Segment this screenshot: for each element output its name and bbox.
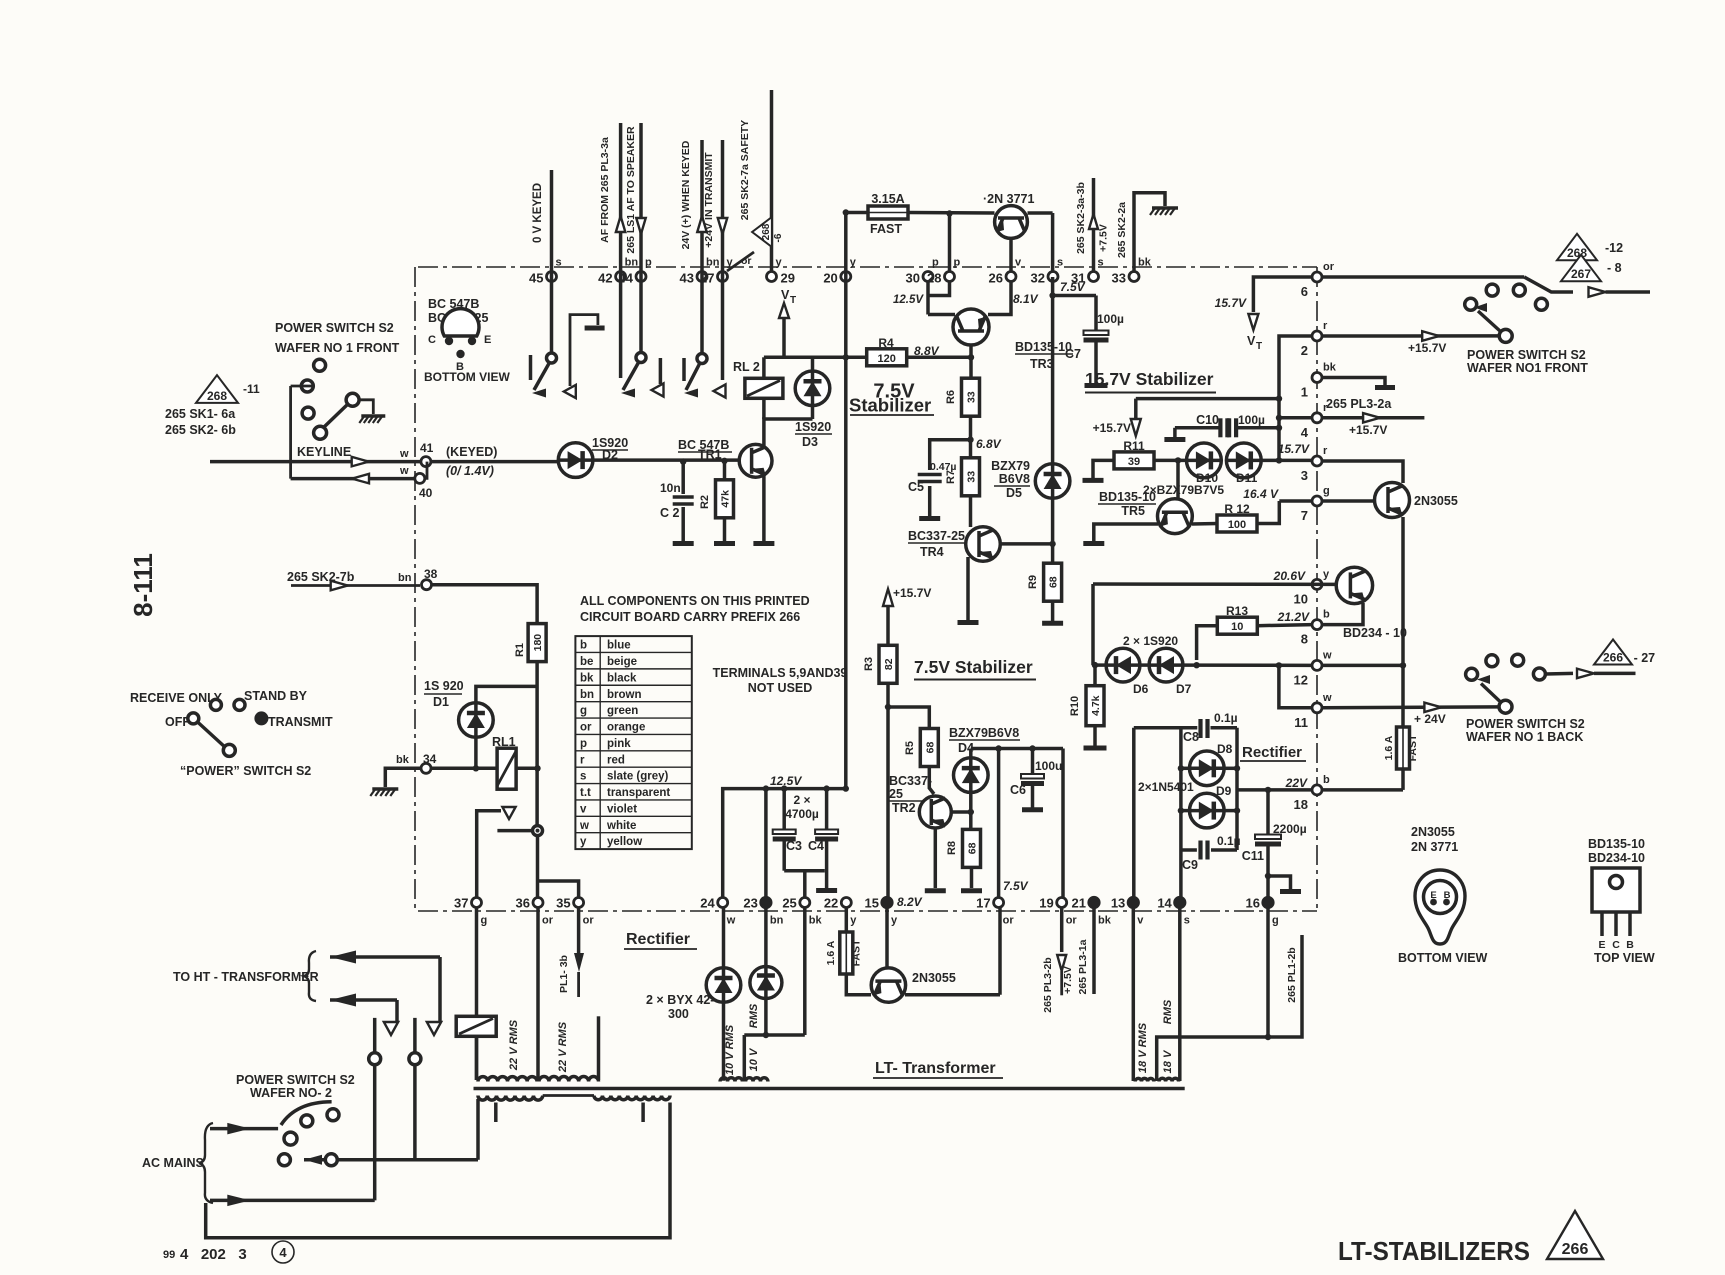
resistor R3 82 xyxy=(863,645,897,683)
svg-text:33: 33 xyxy=(1112,271,1126,286)
node PCB board outline dash-dot border xyxy=(415,267,1317,911)
svg-text:D7: D7 xyxy=(1176,682,1192,696)
svg-text:g: g xyxy=(1323,485,1330,497)
svg-text:D8: D8 xyxy=(1217,742,1233,756)
svg-text:BZX79B6V8: BZX79B6V8 xyxy=(949,726,1019,740)
svg-text:- 8: - 8 xyxy=(1607,261,1622,275)
svg-text:s: s xyxy=(556,257,562,269)
svg-text:r: r xyxy=(580,754,585,766)
svg-text:s: s xyxy=(580,771,586,783)
svg-text:BD234 - 10: BD234 - 10 xyxy=(1343,626,1407,640)
winding secondary 22V no1 xyxy=(477,1019,538,1081)
svg-text:w: w xyxy=(579,820,589,832)
svg-text:1S 920: 1S 920 xyxy=(424,679,464,693)
svg-text:15.7V Stabilizer: 15.7V Stabilizer xyxy=(1085,369,1214,389)
svg-text:17: 17 xyxy=(976,896,990,911)
svg-text:32: 32 xyxy=(1031,271,1045,286)
wire +24V IN TRANSMIT to terminal 27 xyxy=(703,140,727,380)
svg-text:265 SK2-7a SAFETY: 265 SK2-7a SAFETY xyxy=(739,120,751,220)
wire bridge right rail to terminal 18 (22V) xyxy=(1237,728,1312,850)
svg-text:2 × BYX 42-: 2 × BYX 42- xyxy=(646,993,714,1007)
node BC547B BC337-25 BOTTOM VIEW symbol xyxy=(424,297,510,384)
wire terminal 2 row to switch wiper (+15.7V) xyxy=(1322,331,1499,355)
svg-text:47k: 47k xyxy=(720,490,732,508)
node transformer core xyxy=(474,1087,1185,1091)
wire 2N3771 emitter to terminal 26 xyxy=(1009,239,1013,273)
svg-text:bk: bk xyxy=(809,915,823,927)
resistor R2 47k xyxy=(699,458,735,544)
switch S2 wafer1 front contacts (right) xyxy=(1465,284,1548,342)
node terminal 37 (g) xyxy=(454,896,487,927)
svg-text:v: v xyxy=(1137,915,1144,927)
svg-text:2N3055: 2N3055 xyxy=(1414,494,1458,508)
wire HT transformer line 1 xyxy=(330,951,441,1036)
svg-text:7.5V: 7.5V xyxy=(1060,280,1086,294)
svg-text:g: g xyxy=(580,705,587,717)
svg-text:green: green xyxy=(607,705,638,717)
node label POWER SWITCH S2 WAFER NO-2 xyxy=(236,1073,355,1100)
wire terminal 21 stub 265 PL3-1a xyxy=(1077,907,1094,994)
svg-text:29: 29 xyxy=(781,271,795,286)
svg-text:265 SK2-7b: 265 SK2-7b xyxy=(287,570,355,584)
wire terminal 22 down to fuse xyxy=(845,907,849,932)
svg-text:p: p xyxy=(645,257,652,269)
node 15.7V Stabilizer title xyxy=(1085,369,1216,393)
svg-text:BOTTOM VIEW: BOTTOM VIEW xyxy=(1398,951,1488,965)
svg-text:180: 180 xyxy=(532,634,544,652)
diode D5 BZX79B6V8 xyxy=(1035,277,1070,562)
svg-text:R1: R1 xyxy=(514,643,526,657)
svg-text:BD135-10: BD135-10 xyxy=(1015,340,1072,354)
wire terminal 24 down to BYX diode 1 xyxy=(722,907,726,968)
svg-text:FAST: FAST xyxy=(1407,734,1419,761)
svg-text:RL 2: RL 2 xyxy=(733,360,760,374)
diode D11 BZX79B7V5 xyxy=(1226,443,1312,478)
node label 2x 4700u C3 C4 xyxy=(785,793,824,853)
svg-text:STAND BY: STAND BY xyxy=(244,689,308,703)
node label 10V RMS windings xyxy=(724,1003,760,1075)
resistor R12 100 xyxy=(1192,501,1279,532)
svg-text:black: black xyxy=(607,672,637,684)
svg-text:E: E xyxy=(484,334,491,346)
svg-text:36: 36 xyxy=(516,896,530,911)
svg-text:1.6 A: 1.6 A xyxy=(825,940,837,965)
node terminal 29 (y) xyxy=(767,257,795,286)
svg-text:PL1- 3b: PL1- 3b xyxy=(558,955,570,993)
svg-text:R11: R11 xyxy=(1123,439,1145,453)
svg-text:8: 8 xyxy=(1301,632,1308,647)
svg-text:+7.5V: +7.5V xyxy=(1062,966,1074,994)
svg-text:r: r xyxy=(1323,320,1328,332)
svg-text:LT-STABILIZERS: LT-STABILIZERS xyxy=(1338,1236,1530,1266)
svg-text:POWER SWITCH S2: POWER SWITCH S2 xyxy=(275,321,394,335)
wire terminal 12 row to 2N3055 emitter line (w) xyxy=(1322,664,1403,668)
svg-text:BZX79: BZX79 xyxy=(991,459,1030,473)
svg-text:(KEYED): (KEYED) xyxy=(446,445,497,459)
svg-text:bn: bn xyxy=(770,915,784,927)
node label TO HT-TRANSFORMER xyxy=(173,951,319,1001)
node label 265 SK1-6a / 265 SK2-6b xyxy=(165,407,236,437)
svg-text:(0/ 1.4V): (0/ 1.4V) xyxy=(446,464,494,478)
svg-text:D11: D11 xyxy=(1236,471,1258,485)
node triangle 268-6 on safety wire xyxy=(752,217,772,247)
node terminal 35 (or) xyxy=(556,896,594,927)
node terminal 12 (w) xyxy=(1294,649,1332,687)
svg-text:2200µ: 2200µ xyxy=(1273,822,1307,836)
wire terminal 3 row to 2N3055 collector xyxy=(1322,461,1403,483)
wire terminal 6 VT arrow xyxy=(1215,277,1312,352)
winding secondary 18V no1 xyxy=(1135,1078,1154,1081)
fuse 3.15A FAST xyxy=(868,192,908,236)
resistor R13 10 xyxy=(1197,604,1312,660)
node terminal 38 xyxy=(422,567,438,590)
svg-text:y: y xyxy=(1323,568,1330,580)
winding secondary 10V no1 xyxy=(720,1078,742,1082)
winding primary group 1 xyxy=(478,1096,543,1101)
wire 265 SK2-2a terminal 33 to ground xyxy=(1116,193,1178,272)
svg-text:8.2V: 8.2V xyxy=(897,895,923,909)
svg-text:8-111: 8-111 xyxy=(128,553,158,617)
svg-text:2 ×: 2 × xyxy=(793,793,810,807)
wire terminal 1 bk stub to 0V xyxy=(1322,378,1395,388)
svg-text:C10: C10 xyxy=(1196,413,1219,427)
svg-text:-6: -6 xyxy=(773,233,784,242)
svg-text:13: 13 xyxy=(1111,896,1125,911)
svg-text:4.7k: 4.7k xyxy=(1090,695,1102,716)
wire primary right end loop xyxy=(206,1103,670,1238)
svg-text:8.1V: 8.1V xyxy=(1013,292,1039,306)
svg-text:33: 33 xyxy=(966,391,978,403)
svg-text:b: b xyxy=(580,640,587,652)
svg-text:RECEIVE ONLY: RECEIVE ONLY xyxy=(130,691,223,705)
node terminal 31 (s) xyxy=(1071,257,1104,286)
node terminal 14 (s) xyxy=(1157,896,1190,927)
node terminal 15 (y) xyxy=(865,896,898,927)
node label BD135-10 TR5 xyxy=(1098,490,1156,518)
svg-text:s: s xyxy=(1184,915,1190,927)
svg-text:265 SK2-2a: 265 SK2-2a xyxy=(1116,202,1128,258)
svg-text:V: V xyxy=(1247,334,1256,348)
svg-text:WAFER NO1 FRONT: WAFER NO1 FRONT xyxy=(1467,361,1588,375)
transistor 2N3055 (lower) xyxy=(871,968,956,1002)
svg-text:21: 21 xyxy=(1072,896,1086,911)
svg-text:b: b xyxy=(1323,774,1330,786)
svg-text:+15.7V: +15.7V xyxy=(893,586,931,600)
svg-text:Rectifier: Rectifier xyxy=(1242,744,1302,761)
diode D3 1S920 xyxy=(795,357,832,449)
svg-text:0.1µ: 0.1µ xyxy=(1217,834,1241,848)
wire mains riser 1 xyxy=(369,1018,381,1201)
svg-text:+7.5V: +7.5V xyxy=(1098,224,1110,252)
node terminal 4 (r) xyxy=(1301,402,1328,440)
svg-text:g: g xyxy=(481,915,488,927)
node VT arrow at RL2 xyxy=(779,288,796,357)
svg-text:TR2: TR2 xyxy=(892,801,916,815)
wire TR3 base down to R6 xyxy=(968,345,974,379)
wire terminal 38 to R1 xyxy=(431,585,537,624)
svg-text:16.4 V: 16.4 V xyxy=(1243,487,1279,501)
svg-text:white: white xyxy=(606,820,636,832)
svg-text:NOT USED: NOT USED xyxy=(748,681,813,695)
wire TR5 emitter to 0V xyxy=(1083,524,1158,544)
svg-text:+ 24V: + 24V xyxy=(1414,712,1446,726)
svg-text:w: w xyxy=(726,915,736,927)
svg-text:FAST: FAST xyxy=(851,939,863,966)
svg-text:+15.7V: +15.7V xyxy=(1349,423,1387,437)
svg-text:C: C xyxy=(428,334,436,346)
switch S2 wafer no-2 xyxy=(281,1102,339,1145)
node Rectifier title (left) xyxy=(624,931,697,949)
svg-text:bn: bn xyxy=(625,257,639,269)
resistor R4 120 xyxy=(846,336,940,366)
svg-text:TR4: TR4 xyxy=(920,545,944,559)
capacitor C11 2200u xyxy=(1242,790,1307,876)
svg-text:26: 26 xyxy=(989,271,1003,286)
svg-text:10: 10 xyxy=(1294,591,1308,606)
wire switch to triangle 266-27 xyxy=(1545,669,1635,679)
wire 10-row vertical to D6 row xyxy=(1091,584,1095,665)
svg-text:y: y xyxy=(580,836,587,848)
node terminal 36 (or) xyxy=(516,896,554,927)
svg-text:R9: R9 xyxy=(1027,575,1039,589)
wire terminal 10 row (20.6V) xyxy=(1093,569,1337,584)
wire centre tap from terminal 36 xyxy=(536,907,540,1081)
node terminal 44 (p) xyxy=(619,257,652,286)
wire 24V(+) WHEN KEYED to terminal 43 xyxy=(680,140,707,354)
svg-text:18 V: 18 V xyxy=(1162,1049,1174,1073)
svg-text:Rectifier: Rectifier xyxy=(626,931,690,948)
svg-text:beige: beige xyxy=(607,656,637,668)
svg-text:y: y xyxy=(850,257,857,269)
svg-text:+24V IN TRANSMIT: +24V IN TRANSMIT xyxy=(703,152,715,248)
svg-text:3.15A: 3.15A xyxy=(871,192,904,206)
capacitor C10 100u xyxy=(1164,413,1279,440)
svg-text:TR1: TR1 xyxy=(698,448,722,462)
node terminal 28 (p) xyxy=(927,257,960,286)
svg-text:bn: bn xyxy=(398,572,412,584)
node label POWER SWITCH S2 WAFER NO 1 FRONT (left) xyxy=(275,321,400,355)
svg-text:C5: C5 xyxy=(908,480,924,494)
node terminal 2 (r) xyxy=(1301,320,1328,358)
svg-text:TR5: TR5 xyxy=(1121,504,1145,518)
wire terminal 15 down to 2N3055 base xyxy=(885,907,889,968)
svg-text:14: 14 xyxy=(1157,896,1172,911)
node terminal 20 (y) xyxy=(823,257,856,286)
svg-text:B6V8: B6V8 xyxy=(999,472,1030,486)
svg-text:265 LS1 AF TO SPEAKER: 265 LS1 AF TO SPEAKER xyxy=(625,126,637,254)
node label BC337-25 TR2 xyxy=(889,774,932,815)
node terminal 21 (bk) xyxy=(1072,896,1112,927)
svg-text:0 V KEYED: 0 V KEYED xyxy=(532,183,544,243)
capacitor C6 100u xyxy=(1010,749,1062,810)
svg-text:TOP VIEW: TOP VIEW xyxy=(1594,951,1655,965)
svg-text:R4: R4 xyxy=(878,336,894,350)
svg-text:45: 45 xyxy=(529,271,543,286)
svg-text:99: 99 xyxy=(163,1249,175,1261)
resistor R9 68 xyxy=(1027,563,1063,623)
node 2N3055 2N3771 BOTTOM VIEW symbol xyxy=(1398,825,1488,965)
transistor TR4 BC337-25 xyxy=(966,527,1001,562)
wire AC mains line 1 to wafer2 wiper xyxy=(210,1123,278,1135)
node sheet number 8-111 xyxy=(128,553,158,617)
svg-text:R7: R7 xyxy=(945,470,957,484)
svg-text:2×1N5401: 2×1N5401 xyxy=(1138,780,1194,794)
wire terminal 7 to 2N3055 base xyxy=(1322,499,1375,503)
wire 0V KEYED feed to terminal 45 xyxy=(532,170,552,354)
node terminal 41 xyxy=(420,441,497,478)
diode D6 1S920 xyxy=(1093,648,1149,696)
wire HT transformer line 2 xyxy=(330,994,398,1036)
svg-text:bk: bk xyxy=(1323,362,1337,374)
node label BZX79 B6V8 D5 xyxy=(991,459,1030,500)
wire RL2 top node xyxy=(764,356,868,360)
svg-text:7.5V: 7.5V xyxy=(1003,879,1029,893)
wire +15.7V left rail to arrow xyxy=(1093,399,1279,436)
wire D2 to TR1 base xyxy=(593,458,739,462)
wire R6 to 6.8V node xyxy=(967,416,1001,458)
svg-text:2: 2 xyxy=(1301,343,1308,358)
capacitor C7 100u xyxy=(1065,296,1124,386)
node label POWER SWITCH S2 WAFER NO 1 BACK xyxy=(1466,717,1585,744)
node terminal 22 (y) xyxy=(824,896,857,927)
svg-text:267: 267 xyxy=(1571,267,1591,281)
svg-text:yellow: yellow xyxy=(607,836,642,848)
svg-text:C3: C3 xyxy=(786,839,802,853)
svg-text:82: 82 xyxy=(883,658,895,670)
node terminal 19 (or) xyxy=(1039,896,1077,927)
node terminal 23 (bn) xyxy=(743,896,783,927)
wire 265 LS1 AF TO SPEAKER from terminal 44 xyxy=(625,123,646,353)
svg-text:CIRCUIT BOARD CARRY PREFIX: CIRCUIT BOARD CARRY PREFIX 266 xyxy=(580,610,800,624)
svg-text:V: V xyxy=(781,288,790,302)
node title LT-STABILIZERS xyxy=(1338,1236,1530,1266)
svg-text:4 202 3: 4 202 3 xyxy=(180,1246,247,1263)
svg-text:1: 1 xyxy=(1301,385,1308,400)
svg-text:be: be xyxy=(580,656,593,668)
wire mains riser 2 xyxy=(409,1018,421,1160)
svg-text:or: or xyxy=(1003,915,1015,927)
svg-text:R6: R6 xyxy=(945,390,957,404)
svg-text:or: or xyxy=(1066,915,1078,927)
svg-text:R13: R13 xyxy=(1226,604,1248,618)
svg-text:or: or xyxy=(583,915,595,927)
svg-text:s: s xyxy=(1057,257,1063,269)
svg-text:24V (+) WHEN KEYED: 24V (+) WHEN KEYED xyxy=(680,140,692,249)
svg-text:bk: bk xyxy=(1138,257,1152,269)
node terminal 30 (p) xyxy=(906,257,939,286)
svg-text:y: y xyxy=(850,915,857,927)
svg-text:D6: D6 xyxy=(1133,682,1149,696)
diode D1 1S920 xyxy=(459,686,537,768)
svg-text:100µ: 100µ xyxy=(1238,413,1265,427)
svg-text:+15.7V: +15.7V xyxy=(1093,421,1131,435)
svg-text:265 PL3-1a: 265 PL3-1a xyxy=(1077,939,1089,994)
switch S2 wafer1 contact group B (terminals 42/44) xyxy=(621,353,664,398)
svg-text:D5: D5 xyxy=(1006,486,1022,500)
node triangle 268-12 / 267-8 xyxy=(1557,234,1623,281)
switch S2 wafer1 contact group A (terminal 45) xyxy=(531,353,557,398)
svg-text:·2N 3771: ·2N 3771 xyxy=(983,192,1034,206)
node triangle 268-11 xyxy=(196,375,260,403)
wire keyed line to D2 xyxy=(430,460,558,464)
diode D8 1N5401 xyxy=(1178,728,1241,786)
svg-text:v: v xyxy=(1015,257,1022,269)
node terminal 43 (bn) xyxy=(680,257,720,286)
node terminal 10 (y) xyxy=(1294,568,1330,606)
svg-text:1.6 A: 1.6 A xyxy=(1383,735,1395,760)
wire C11 to 0V hook and terminal 16 xyxy=(1265,873,1301,898)
svg-text:TR3: TR3 xyxy=(1030,357,1054,371)
capacitor C2 10n xyxy=(660,458,694,543)
svg-text:20: 20 xyxy=(823,271,837,286)
node label 2xBYX42-300 xyxy=(646,993,714,1021)
wire 265 SK2-3a-3b +7.5V to terminal 31 xyxy=(1075,178,1110,272)
wire terminal 28 to collector row xyxy=(948,214,952,273)
wire 23 branch on 12.5V rail xyxy=(763,785,769,898)
svg-text:6: 6 xyxy=(1301,284,1308,299)
node terminal 40 xyxy=(415,462,433,500)
node terminal 42 (bn) xyxy=(598,257,638,286)
switch S2 wafer1 front view contacts (left) xyxy=(291,359,386,439)
svg-text:- 27: - 27 xyxy=(1634,651,1656,665)
transistor 2N3055 (upper) xyxy=(1375,483,1458,518)
svg-text:37: 37 xyxy=(454,896,468,911)
diode D10 BZX79B7V5 xyxy=(1187,443,1222,478)
svg-text:41: 41 xyxy=(420,441,434,455)
capacitor C3 4700u xyxy=(773,785,796,870)
wire TR4 emitter to 0V xyxy=(958,557,979,623)
wire riser from terminal 13 (v) xyxy=(1132,728,1136,898)
svg-text:-11: -11 xyxy=(243,382,260,396)
svg-text:43: 43 xyxy=(680,271,694,286)
wire KEYLINE xyxy=(210,386,421,483)
svg-text:C9: C9 xyxy=(1182,858,1198,872)
svg-text:R8: R8 xyxy=(946,841,958,855)
svg-text:y: y xyxy=(891,915,898,927)
svg-text:265 SK2-3a-3b: 265 SK2-3a-3b xyxy=(1075,182,1087,254)
svg-text:R3: R3 xyxy=(863,657,875,671)
wire TR1 emitter to 0V xyxy=(753,474,774,544)
node label RECEIVE ONLY STAND BY OFF TRANSMIT switch S2 xyxy=(130,689,333,778)
switch S2 wafer1 back contacts xyxy=(1466,654,1546,713)
node terminal 27 (y) xyxy=(700,257,733,286)
svg-text:w: w xyxy=(399,465,409,477)
wire 18V winding risers xyxy=(1133,907,1302,1081)
wire terminal 11 to +24V switch xyxy=(1322,703,1499,726)
wire or diagonal from terminal 27 to safety wire xyxy=(727,252,754,271)
diode BYX42-300 no1 xyxy=(706,968,741,1081)
svg-text:bn: bn xyxy=(580,689,594,701)
svg-text:AC MAINS: AC MAINS xyxy=(142,1156,204,1170)
node label 265 PL3-2a and +15.7V arrow at terminal 4 xyxy=(1322,397,1424,437)
svg-text:“POWER” SWITCH S2: “POWER” SWITCH S2 xyxy=(180,764,311,778)
switch S2 wafer1 contact group C (terminals 43/27) xyxy=(684,354,726,398)
svg-text:10n: 10n xyxy=(660,481,681,495)
svg-text:brown: brown xyxy=(607,689,642,701)
svg-text:TRANSMIT: TRANSMIT xyxy=(268,715,333,729)
relay contact (mains) near transformer xyxy=(456,907,496,1080)
svg-text:T: T xyxy=(1256,341,1262,352)
svg-text:4: 4 xyxy=(279,1245,287,1260)
svg-text:268: 268 xyxy=(207,389,227,403)
node AC MAINS bracket xyxy=(142,1123,213,1203)
wire terminal 35 and 36 link xyxy=(538,881,579,898)
wire 7.5V branch to C7 xyxy=(1049,280,1096,299)
wire terminal 11 row (w) xyxy=(1276,662,1312,708)
svg-text:22V: 22V xyxy=(1285,776,1308,790)
transistor TR3 BD135-10 xyxy=(953,309,1073,371)
svg-text:D1: D1 xyxy=(433,695,449,709)
